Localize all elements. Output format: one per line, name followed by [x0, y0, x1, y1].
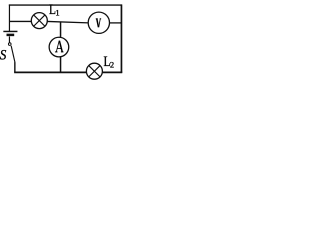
battery cell: short thick plate: [7, 34, 15, 37]
svg-text:2: 2: [110, 59, 114, 69]
ammeter A: letter A: [55, 41, 64, 52]
switch S: blade: [11, 46, 15, 63]
wire: bottom side, right of lamp L2: [102, 71, 122, 73]
battery cell: long plate: [3, 30, 17, 32]
svg-text:1: 1: [55, 8, 59, 18]
svg-text:S: S: [0, 48, 6, 64]
ammeter A: circle: [49, 37, 69, 57]
wire: lamp L1 to voltmeter: [47, 21, 88, 22]
lamp L2: circle: [86, 63, 102, 79]
switch S: pivot circle: [8, 43, 11, 46]
wire: top side: [9, 4, 122, 6]
wire: left upper (top corner to battery): [8, 4, 10, 31]
wire: ammeter branch bottom (ammeter to bottom wire): [60, 56, 62, 72]
wire: right side: [120, 4, 122, 72]
wire: ammeter branch top (junction to ammeter): [60, 22, 62, 38]
lamp L1: cross: [34, 15, 45, 26]
wire: L1 branch from left side: [9, 20, 31, 22]
lamp L2: cross: [89, 66, 100, 77]
wire: switch to bottom-left corner: [14, 62, 16, 72]
lamp L1: circle: [31, 13, 47, 29]
voltmeter V: circle: [88, 12, 109, 33]
voltmeter V: letter V: [96, 19, 101, 27]
wire: voltmeter to right side: [109, 22, 121, 24]
wire: bottom side, left of lamp L2: [14, 71, 86, 73]
wire: battery to switch pivot: [8, 36, 10, 42]
